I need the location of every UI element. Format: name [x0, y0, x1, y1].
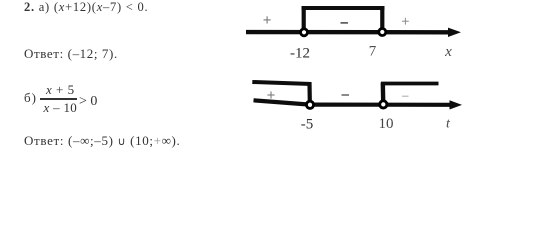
plus sign left a — [264, 16, 271, 23]
arrow a — [448, 28, 461, 37]
faint minus sign right b — [402, 95, 409, 97]
fraction numerator x+5 — [46, 83, 75, 96]
axis b main segment — [310, 102, 452, 106]
bracket rectangle left vertical — [302, 6, 306, 30]
axis b left sloped segment — [254, 100, 311, 104]
plus sign left b — [267, 91, 274, 98]
minus sign middle b — [342, 94, 350, 96]
bracket rectangle right vertical — [380, 6, 384, 30]
right bracket vertical b — [381, 83, 386, 103]
minus sign a — [341, 22, 349, 24]
number line diagram a — [0, 0, 550, 152]
axis a — [246, 30, 450, 35]
answer 2b — [24, 134, 180, 148]
right bracket top bar b — [381, 82, 439, 86]
svg-text:-12: -12 — [290, 46, 310, 62]
fraction denominator x-10 — [44, 101, 78, 114]
problem 2b label — [24, 91, 37, 104]
arrow b — [450, 100, 463, 109]
svg-text:10: 10 — [379, 116, 394, 132]
svg-text:-5: -5 — [301, 117, 314, 133]
bracket rectangle top bar — [302, 6, 385, 10]
open circle -5 — [306, 101, 313, 108]
left bracket vertical b — [307, 83, 311, 102]
svg-text:7: 7 — [369, 44, 377, 60]
left bracket top bar b — [252, 82, 311, 84]
open circle 10 — [380, 101, 387, 108]
answer 2a — [24, 47, 118, 60]
plus sign right a — [402, 18, 409, 25]
problem 2a text — [24, 1, 148, 14]
fraction bar — [40, 98, 77, 100]
greater than zero — [79, 95, 97, 109]
svg-text:x: x — [444, 44, 452, 60]
svg-text:t: t — [446, 117, 451, 132]
open circle 7 — [379, 29, 386, 36]
open circle -12 — [301, 29, 308, 36]
